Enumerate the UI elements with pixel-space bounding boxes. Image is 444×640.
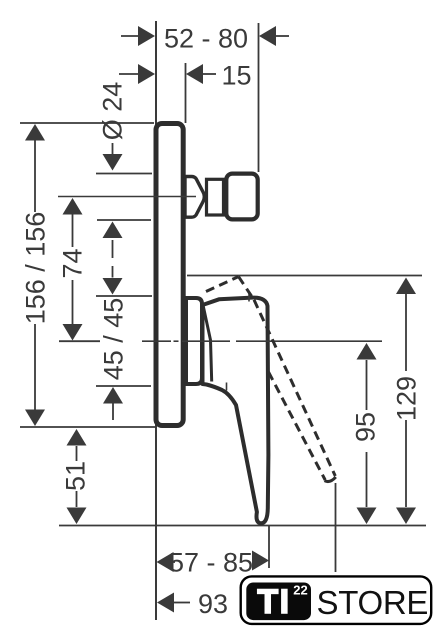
svg-text:45 / 45: 45 / 45: [99, 298, 129, 381]
svg-text:95: 95: [351, 412, 381, 442]
svg-text:57 - 85: 57 - 85: [169, 548, 253, 578]
svg-text:TI: TI: [257, 583, 290, 621]
svg-text:51: 51: [61, 461, 91, 491]
svg-text:74: 74: [58, 248, 88, 278]
svg-text:52 - 80: 52 - 80: [164, 24, 248, 54]
svg-text:15: 15: [221, 61, 251, 91]
svg-text:93: 93: [198, 589, 228, 619]
svg-text:129: 129: [392, 376, 422, 421]
svg-text:Ø 24: Ø 24: [98, 82, 128, 141]
svg-text:156 / 156: 156 / 156: [21, 212, 51, 325]
svg-text:22: 22: [293, 583, 307, 598]
svg-text:STORE: STORE: [317, 584, 429, 621]
